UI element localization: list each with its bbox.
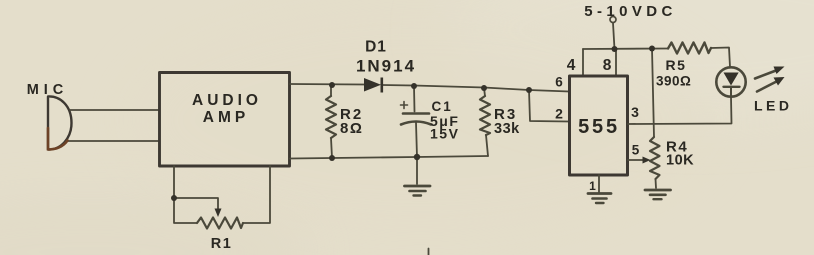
svg-text:2: 2 [555, 106, 563, 122]
svg-text:R1: R1 [211, 236, 233, 252]
svg-text:8Ω: 8Ω [340, 120, 363, 137]
svg-text:3: 3 [631, 104, 639, 120]
svg-text:8: 8 [603, 57, 612, 74]
svg-text:AUDIO: AUDIO [192, 92, 262, 109]
svg-text:4: 4 [567, 57, 576, 74]
svg-text:5: 5 [632, 143, 640, 158]
svg-text:AMP: AMP [203, 109, 249, 126]
svg-text:10K: 10K [666, 153, 694, 169]
svg-text:555: 555 [578, 116, 620, 138]
svg-text:6: 6 [555, 75, 563, 90]
svg-text:5-10VDC: 5-10VDC [584, 3, 677, 20]
svg-text:D1: D1 [365, 39, 387, 56]
svg-text:1N914: 1N914 [356, 57, 416, 76]
svg-text:R5: R5 [666, 57, 687, 73]
svg-text:390Ω: 390Ω [656, 74, 691, 89]
svg-text:C1: C1 [432, 99, 453, 114]
svg-text:15V: 15V [430, 126, 459, 142]
svg-text:33k: 33k [494, 121, 520, 137]
svg-text:1: 1 [589, 179, 596, 193]
svg-text:MIC: MIC [27, 82, 69, 98]
svg-text:LED: LED [754, 98, 793, 114]
